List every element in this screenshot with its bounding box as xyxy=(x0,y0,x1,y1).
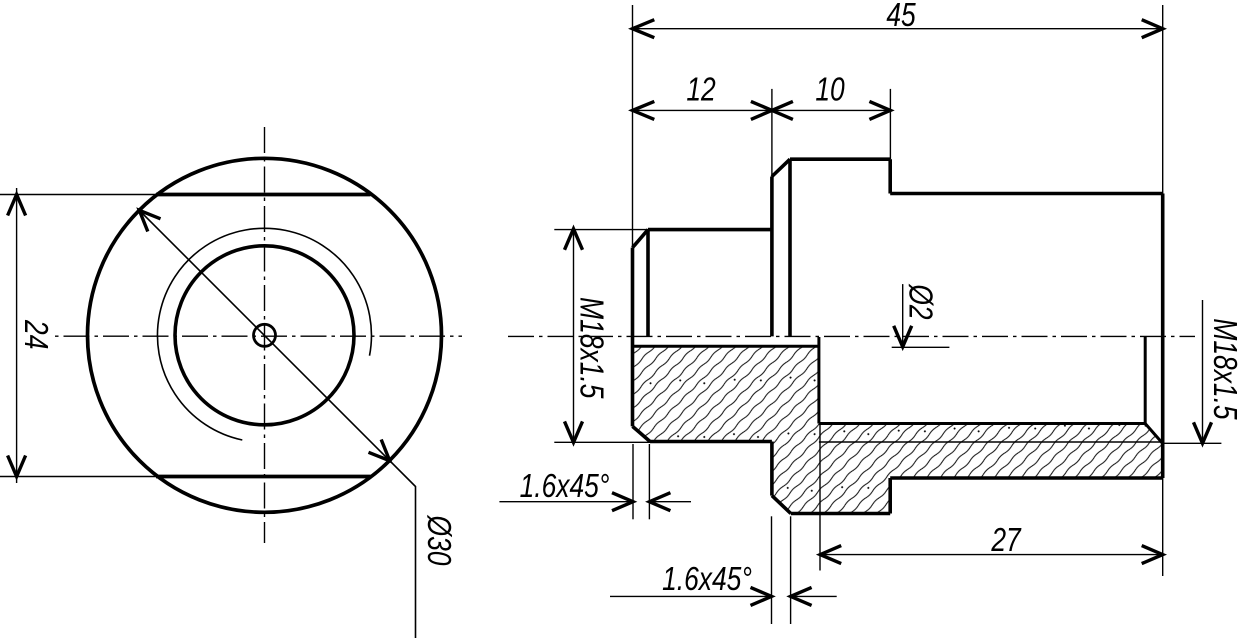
svg-text:Ø2: Ø2 xyxy=(902,284,938,320)
svg-text:1.6x45°: 1.6x45° xyxy=(520,468,610,504)
svg-text:M18x1.5: M18x1.5 xyxy=(573,297,609,399)
svg-text:12: 12 xyxy=(686,72,716,108)
svg-text:M18x1.5: M18x1.5 xyxy=(1206,318,1242,420)
svg-text:Ø30: Ø30 xyxy=(420,515,456,566)
svg-text:10: 10 xyxy=(815,72,845,108)
svg-text:27: 27 xyxy=(990,522,1021,558)
svg-text:1.6x45°: 1.6x45° xyxy=(662,561,752,597)
svg-text:45: 45 xyxy=(886,0,916,34)
svg-text:24: 24 xyxy=(17,319,53,349)
